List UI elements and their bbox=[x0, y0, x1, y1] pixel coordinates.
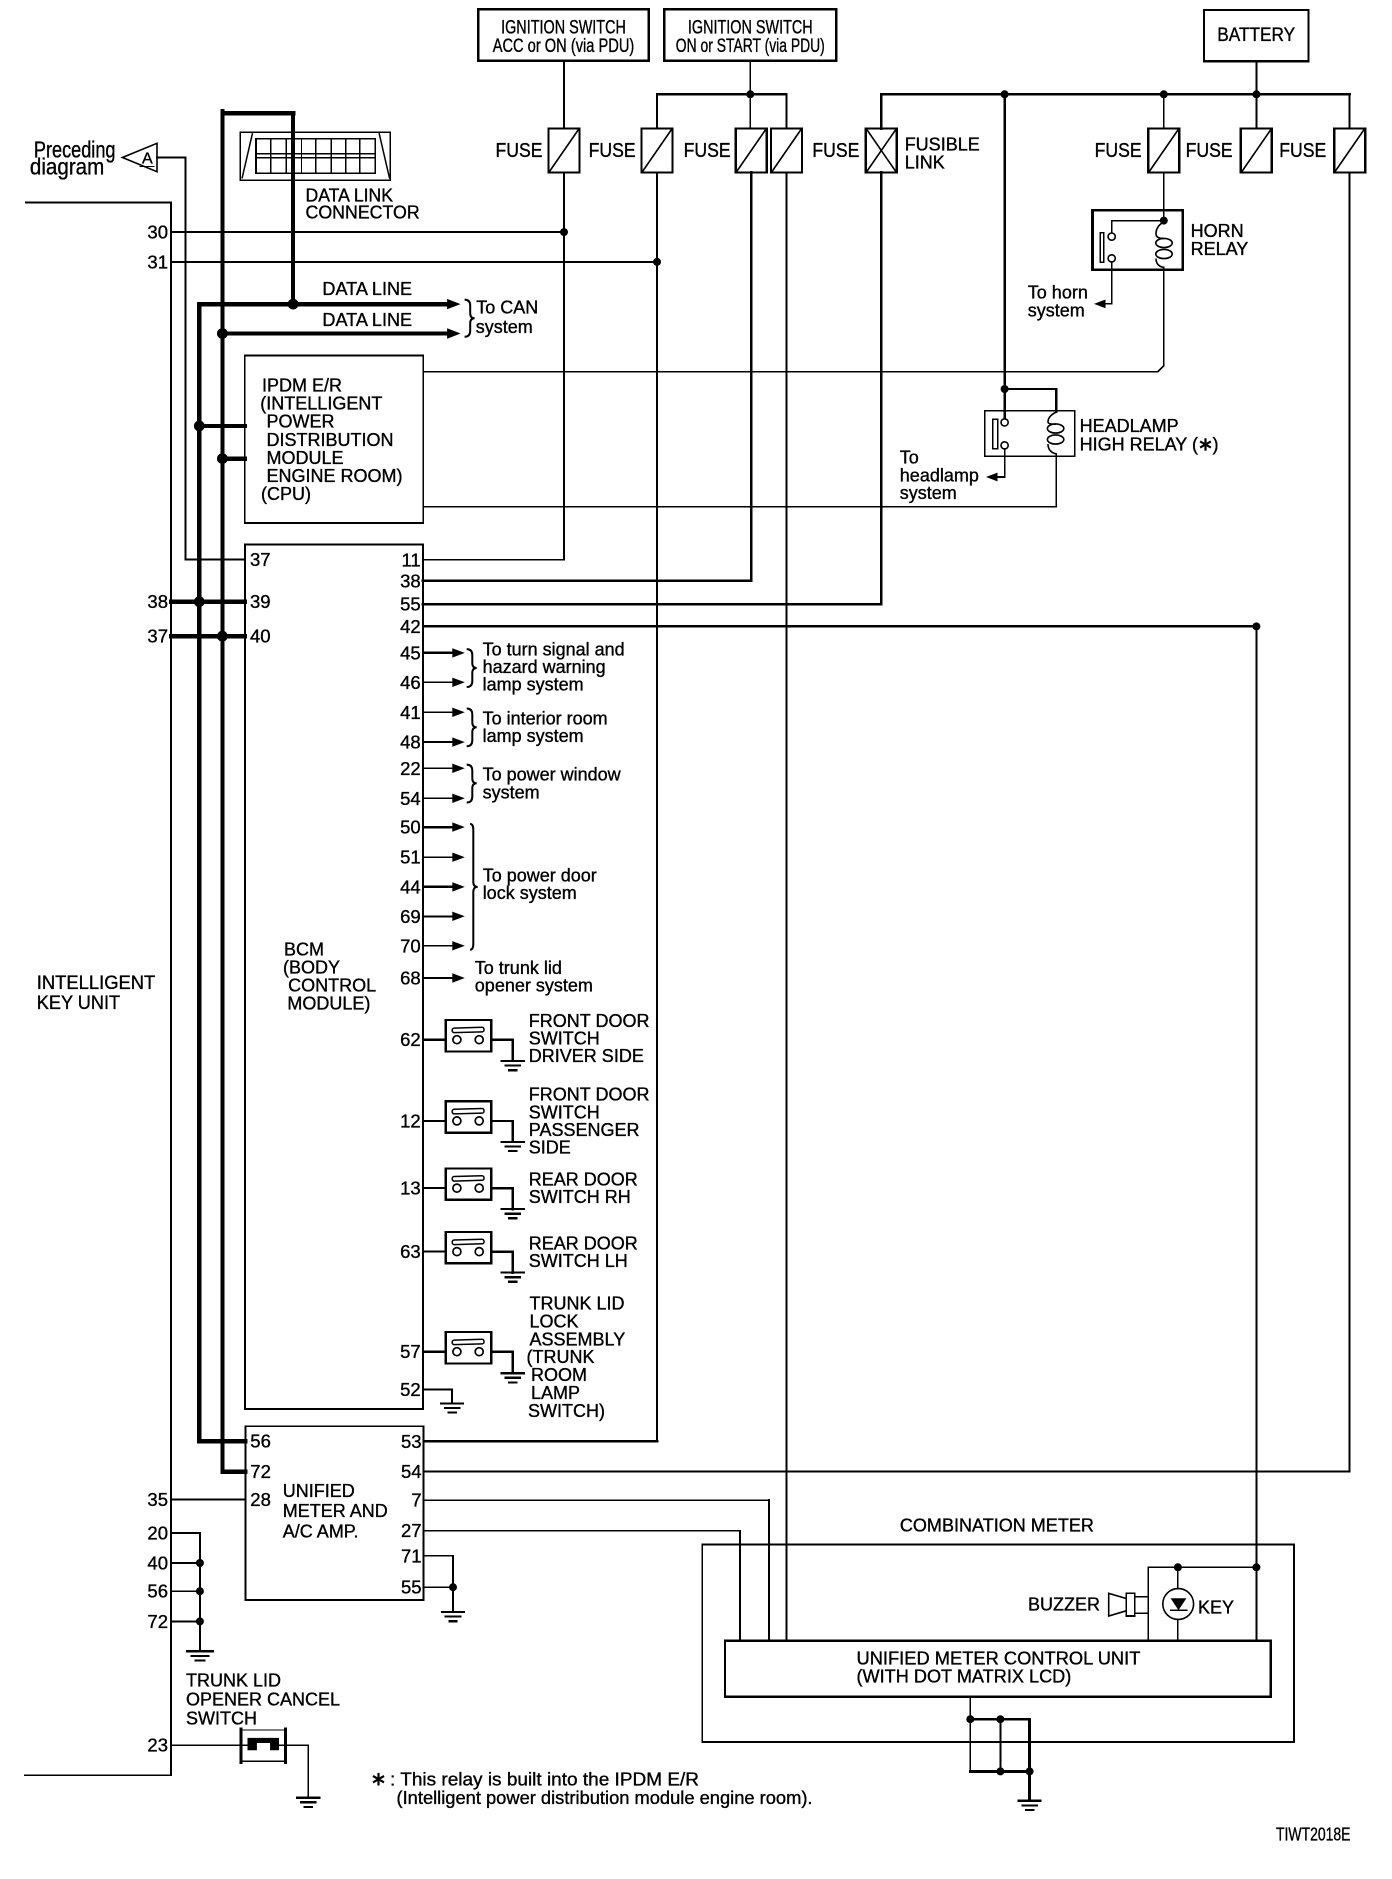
wire BCM 41 arrow bbox=[423, 708, 465, 717]
node junction ON/START bbox=[746, 90, 754, 98]
wire BCM 13 to switch bbox=[423, 1187, 446, 1189]
pin 41 label bbox=[400, 702, 421, 723]
wire BCM 62 to switch bbox=[423, 1038, 446, 1040]
node CAN-B pin40 bbox=[217, 631, 228, 642]
wire switch rear door RH to ground bbox=[491, 1188, 512, 1209]
svg-text:DATA LINE: DATA LINE bbox=[322, 310, 412, 330]
wire 35 to pin 28 bbox=[171, 1499, 246, 1501]
ground rear door RH bbox=[502, 1209, 524, 1218]
node bus-battery bbox=[1252, 90, 1260, 98]
svg-text:BATTERY: BATTERY bbox=[1217, 25, 1295, 46]
svg-text:7: 7 bbox=[411, 1490, 421, 1511]
svg-text:IPDM E/R: IPDM E/R bbox=[262, 376, 342, 396]
svg-text:SIDE: SIDE bbox=[529, 1138, 571, 1158]
pin 30 label bbox=[147, 222, 168, 243]
wire junction bus over fuses F2-F4 bbox=[657, 93, 787, 95]
pin 71 label bbox=[401, 1545, 422, 1566]
svg-text:lamp system: lamp system bbox=[483, 675, 584, 695]
svg-text:39: 39 bbox=[250, 591, 271, 612]
wire 72 stub bbox=[171, 1620, 200, 1622]
wire horn contact to horn system bbox=[1105, 262, 1112, 304]
wire BCM 22 arrow bbox=[423, 764, 465, 773]
wire 56 stub bbox=[171, 1590, 200, 1592]
pin 48 label bbox=[400, 732, 421, 753]
pin 46 label bbox=[400, 672, 421, 693]
fuse FC label bbox=[1279, 140, 1326, 162]
wire bus to fuse FB bbox=[1255, 94, 1257, 128]
svg-text:38: 38 bbox=[147, 591, 168, 612]
door switch front door passenger bbox=[446, 1101, 492, 1132]
svg-text:TIWT2018E: TIWT2018E bbox=[1276, 1825, 1351, 1845]
svg-text:FUSE: FUSE bbox=[496, 140, 543, 162]
svg-text:(INTELLIGENT: (INTELLIGENT bbox=[260, 394, 382, 414]
svg-text:A: A bbox=[142, 151, 153, 168]
battery bus wire bbox=[881, 93, 1349, 96]
wire junction to fuse F2 bbox=[656, 94, 658, 128]
pin 40 label BCM bbox=[250, 625, 271, 646]
unified meter box bbox=[245, 1426, 423, 1600]
wire BCM 51 arrow bbox=[423, 853, 465, 862]
fuse FA bbox=[1148, 129, 1179, 173]
svg-text:44: 44 bbox=[400, 876, 421, 897]
svg-text:INTELLIGENT: INTELLIGENT bbox=[37, 973, 156, 994]
wire 20 to ground rail bbox=[171, 1533, 200, 1651]
wire switch trunk lid lock to ground bbox=[491, 1352, 512, 1374]
IPDM E/R label bbox=[260, 376, 402, 505]
svg-text:lamp system: lamp system bbox=[483, 726, 584, 746]
svg-text:SWITCH LH: SWITCH LH bbox=[529, 1251, 628, 1271]
svg-text:12: 12 bbox=[400, 1110, 421, 1131]
svg-text:KEY UNIT: KEY UNIT bbox=[37, 993, 121, 1014]
fuse FB label bbox=[1186, 140, 1233, 162]
svg-text:BUZZER: BUZZER bbox=[1028, 1595, 1100, 1615]
svg-text:69: 69 bbox=[400, 906, 421, 927]
door switch rear door RH bbox=[446, 1169, 492, 1200]
wire 71 join 55 bbox=[424, 1556, 453, 1587]
pin 7 label bbox=[411, 1490, 421, 1511]
wire 27 to meter control unit bbox=[424, 1531, 740, 1641]
pin 53 label bbox=[401, 1431, 422, 1452]
fuse FC bbox=[1334, 129, 1365, 173]
wire battery to bus bbox=[1255, 61, 1257, 94]
svg-text:DISTRIBUTION: DISTRIBUTION bbox=[267, 430, 394, 450]
ignition switch ACC box bbox=[478, 9, 649, 61]
wire bus to headlamp relay bbox=[1003, 94, 1005, 419]
horn relay label bbox=[1191, 221, 1249, 259]
svg-text:30: 30 bbox=[147, 222, 168, 243]
svg-text:28: 28 bbox=[250, 1489, 271, 1510]
wire BCM 44 arrow bbox=[423, 882, 465, 891]
fuse F1 label bbox=[496, 140, 543, 162]
data link connector bbox=[240, 132, 390, 180]
document number bbox=[1276, 1825, 1351, 1845]
pin 27 label bbox=[401, 1520, 422, 1541]
pin 35 label left bbox=[147, 1489, 168, 1510]
brace turn signal bbox=[467, 649, 477, 687]
wire BCM 68 arrow bbox=[423, 973, 465, 982]
brace power door lock bbox=[470, 824, 478, 950]
wire CAN-A to IPDM stub bbox=[199, 424, 245, 428]
svg-text:(BODY: (BODY bbox=[283, 958, 340, 978]
svg-text:20: 20 bbox=[147, 1522, 168, 1543]
fuse F4 label bbox=[812, 140, 859, 162]
to headlamp system label bbox=[900, 447, 979, 503]
ground cancel switch bbox=[297, 1798, 319, 1807]
wire BCM 63 to switch bbox=[423, 1251, 446, 1253]
svg-text:72: 72 bbox=[147, 1611, 168, 1632]
data line labels bbox=[322, 279, 412, 330]
pin 62 label bbox=[400, 1029, 421, 1050]
switch front door passenger label bbox=[529, 1085, 650, 1158]
svg-text:55: 55 bbox=[401, 1577, 422, 1598]
brace to CAN system bbox=[465, 300, 475, 337]
wire junction to fuse F4 bbox=[786, 94, 788, 128]
pin 57 label bbox=[400, 1341, 421, 1362]
svg-text:FUSE: FUSE bbox=[812, 140, 859, 162]
pin 72 label left bbox=[147, 1611, 168, 1632]
wire bus to fusible link bbox=[880, 94, 883, 128]
ground rear door LH bbox=[502, 1273, 524, 1282]
fuse FA label bbox=[1095, 140, 1142, 162]
ground pin 52 bbox=[441, 1403, 463, 1412]
svg-text:42: 42 bbox=[400, 616, 421, 637]
wire CAN-B top corner bbox=[222, 111, 293, 115]
BCM label bbox=[283, 940, 376, 1014]
switch front door driver label bbox=[529, 1011, 650, 1066]
svg-text:ACC or ON (via PDU): ACC or ON (via PDU) bbox=[493, 36, 635, 57]
door switch rear door LH bbox=[446, 1232, 492, 1263]
pin 38 label bbox=[400, 570, 421, 591]
wire switch front door passenger to ground bbox=[491, 1121, 512, 1142]
fuse F2 label bbox=[589, 140, 636, 162]
switch rear door LH label bbox=[529, 1234, 638, 1272]
pin 38 label left bbox=[147, 591, 168, 612]
svg-text:46: 46 bbox=[400, 672, 421, 693]
svg-text:37: 37 bbox=[147, 626, 168, 647]
IPDM E/R box bbox=[245, 355, 423, 523]
wire 23 to cancel switch bbox=[171, 1744, 247, 1746]
wire switch front door driver to ground bbox=[491, 1040, 512, 1061]
wire fuse FA to horn relay bbox=[1163, 173, 1165, 221]
svg-text:FUSE: FUSE bbox=[1186, 140, 1233, 162]
meter ground mesh bbox=[966, 1697, 1033, 1776]
data line 1 arrow bbox=[447, 299, 461, 309]
node DLC-dataline1 bbox=[288, 299, 299, 310]
svg-text:40: 40 bbox=[250, 625, 271, 646]
to horn system label bbox=[1028, 282, 1088, 320]
node bus-headlamp feed bbox=[1001, 90, 1009, 98]
to CAN system label bbox=[476, 298, 539, 337]
pin 54 label bbox=[400, 788, 421, 809]
pin 37 label left bbox=[147, 626, 168, 647]
wire 7 to meter control unit bbox=[424, 1500, 770, 1641]
svg-text:SWITCH): SWITCH) bbox=[528, 1401, 605, 1421]
connector triangle A bbox=[122, 143, 157, 171]
svg-text:35: 35 bbox=[147, 1489, 168, 1510]
pin 28 label unified bbox=[250, 1489, 271, 1510]
node battery drop comb meter bbox=[1252, 1563, 1260, 1571]
fuse F2 bbox=[642, 129, 673, 173]
node 40-gnd bbox=[196, 1559, 204, 1567]
svg-text:37: 37 bbox=[250, 549, 271, 570]
svg-text:50: 50 bbox=[400, 817, 421, 838]
pin 45 label bbox=[400, 642, 421, 663]
svg-text:57: 57 bbox=[400, 1341, 421, 1362]
combination meter box bbox=[702, 1545, 1294, 1742]
ignition switch ACC label bbox=[493, 18, 635, 57]
svg-text:71: 71 bbox=[401, 1545, 422, 1566]
node bus-fuse FA bbox=[1160, 90, 1168, 98]
data link connector label bbox=[306, 186, 420, 223]
svg-text:system: system bbox=[900, 483, 957, 503]
svg-text:FUSE: FUSE bbox=[1279, 140, 1326, 162]
svg-text:ENGINE ROOM): ENGINE ROOM) bbox=[267, 466, 403, 486]
svg-text:62: 62 bbox=[400, 1029, 421, 1050]
svg-text:system: system bbox=[483, 782, 540, 802]
wire BCM 50 arrow bbox=[423, 822, 465, 831]
ground key unit bbox=[187, 1651, 213, 1660]
horn relay contact wiring bbox=[1100, 221, 1164, 263]
unified meter label bbox=[283, 1481, 388, 1541]
wire BCM 48 arrow bbox=[423, 737, 465, 746]
svg-text:FUSE: FUSE bbox=[1095, 140, 1142, 162]
wire mesh to ground bbox=[1028, 1771, 1031, 1800]
svg-text:68: 68 bbox=[400, 968, 421, 989]
pin 52 label bbox=[400, 1379, 421, 1400]
pin 37 label BCM bbox=[250, 549, 271, 570]
buzzer symbol bbox=[1109, 1593, 1149, 1616]
svg-text:UNIFIED: UNIFIED bbox=[283, 1481, 355, 1501]
svg-text:HIGH RELAY (: HIGH RELAY ( bbox=[1080, 434, 1198, 454]
headlamp relay coil bbox=[1047, 412, 1063, 454]
wire BCM 42 to battery line bbox=[423, 625, 1256, 627]
horn relay coil bbox=[1156, 222, 1172, 268]
key LED label bbox=[1198, 1598, 1234, 1618]
svg-text:system: system bbox=[476, 317, 533, 337]
svg-text:(WITH DOT MATRIX LCD): (WITH DOT MATRIX LCD) bbox=[857, 1667, 1072, 1687]
svg-text:TRUNK LID: TRUNK LID bbox=[186, 1670, 281, 1690]
wire BCM 70 arrow bbox=[423, 941, 465, 950]
to trunk lid opener label bbox=[475, 958, 593, 996]
node CAN-A pin39 bbox=[194, 596, 205, 607]
svg-text:OPENER CANCEL: OPENER CANCEL bbox=[186, 1690, 340, 1710]
data line 2 arrow bbox=[447, 328, 461, 338]
pin 42 label bbox=[400, 616, 421, 637]
wire BCM 52 to ground bbox=[423, 1390, 452, 1403]
wire horn coil to IPDM bbox=[423, 268, 1164, 372]
headlamp relay label bbox=[1080, 416, 1219, 454]
svg-text:RELAY: RELAY bbox=[1191, 239, 1249, 259]
switch rear door RH label bbox=[529, 1170, 638, 1208]
wire triangle-A to pin 37 of BCM bbox=[157, 158, 245, 560]
wire BCM 46 arrow bbox=[423, 678, 465, 687]
footnote text bbox=[390, 1769, 813, 1808]
wire BCM 38 to fuse F3 bbox=[423, 173, 751, 581]
ignition switch ON/START label bbox=[676, 18, 825, 57]
wire CAN-B vertical bbox=[220, 111, 224, 1472]
fusible link FL bbox=[866, 129, 897, 173]
wire BCM 57 to switch bbox=[423, 1350, 446, 1352]
svg-text:lock system: lock system bbox=[483, 883, 577, 903]
node 72-gnd bbox=[196, 1617, 204, 1625]
door switch front door driver bbox=[446, 1020, 492, 1051]
wire fuse FB to key illumination bbox=[1255, 626, 1257, 1640]
trunk lid opener cancel switch bbox=[240, 1729, 286, 1763]
node 31-F2 bbox=[653, 258, 661, 266]
wire CAN-A vertical bbox=[197, 304, 201, 1441]
pin 54 label unified bbox=[401, 1461, 422, 1482]
svg-text:23: 23 bbox=[147, 1735, 168, 1756]
svg-text:ON or START (via PDU): ON or START (via PDU) bbox=[676, 36, 825, 57]
wire 54 to fuse FC bbox=[424, 173, 1350, 1472]
pin 72 label unified bbox=[250, 1461, 271, 1482]
svg-text:54: 54 bbox=[401, 1461, 422, 1482]
pin 12 label bbox=[400, 1110, 421, 1131]
svg-text:31: 31 bbox=[147, 251, 168, 272]
fuse F4 bbox=[771, 129, 802, 173]
wire ACC to fuse F1 bbox=[563, 61, 565, 129]
svg-text:38: 38 bbox=[400, 570, 421, 591]
wire 55 to ground bbox=[424, 1587, 453, 1611]
pin 40 label left bbox=[147, 1553, 168, 1574]
wire left rail top bbox=[25, 202, 171, 1775]
ground unified 55 bbox=[442, 1612, 464, 1621]
svg-text:11: 11 bbox=[401, 549, 420, 570]
fuse FB bbox=[1241, 129, 1272, 173]
pin 56 label unified bbox=[250, 1431, 271, 1452]
fuse F3 label bbox=[684, 140, 731, 162]
svg-text:HORN: HORN bbox=[1191, 221, 1244, 241]
svg-text:DATA LINE: DATA LINE bbox=[322, 279, 412, 299]
footnote star bbox=[373, 1773, 384, 1786]
fuse F3 bbox=[736, 129, 767, 173]
wire junction to fuse F3 bbox=[749, 94, 751, 128]
svg-text:40: 40 bbox=[147, 1553, 168, 1574]
unified meter control unit label bbox=[857, 1649, 1141, 1687]
wire CAN-A to pin 56 bbox=[199, 1439, 245, 1443]
node headlamp branch bbox=[1001, 385, 1009, 393]
svg-text:45: 45 bbox=[400, 642, 421, 663]
pin 20 label bbox=[147, 1522, 168, 1543]
wire cancel switch to ground bbox=[279, 1745, 308, 1797]
node key LED feed bbox=[1174, 1563, 1182, 1571]
fusible link label bbox=[905, 135, 980, 173]
trunk lid opener cancel switch label bbox=[186, 1670, 340, 1728]
to interior room label bbox=[483, 709, 608, 747]
svg-text:MODULE: MODULE bbox=[267, 448, 344, 468]
node 42-battery bbox=[1252, 622, 1260, 630]
svg-text:22: 22 bbox=[400, 758, 421, 779]
node 71-55 bbox=[449, 1583, 457, 1591]
svg-text:52: 52 bbox=[400, 1379, 421, 1400]
wire 53 to fuse F2 bbox=[424, 173, 657, 1442]
wire switch rear door LH to ground bbox=[491, 1252, 512, 1273]
wire buzzer feed bbox=[1147, 1567, 1149, 1641]
svg-text:53: 53 bbox=[401, 1431, 422, 1452]
unified meter control unit box bbox=[725, 1641, 1271, 1697]
pin 50 label bbox=[400, 817, 421, 838]
battery label bbox=[1217, 25, 1295, 46]
pin 13 label bbox=[400, 1178, 421, 1199]
svg-text:system: system bbox=[1028, 300, 1085, 320]
ground combination meter bbox=[1019, 1801, 1041, 1810]
pin 56 label left bbox=[147, 1581, 168, 1602]
svg-text:LINK: LINK bbox=[905, 153, 945, 173]
brace power window bbox=[467, 765, 477, 803]
wire BCM 12 to switch bbox=[423, 1120, 446, 1122]
ground front door driver bbox=[502, 1061, 524, 1070]
intelligent key unit label bbox=[37, 973, 156, 1014]
svg-text:63: 63 bbox=[400, 1241, 421, 1262]
pin 39 label BCM bbox=[250, 591, 271, 612]
svg-text:opener system: opener system bbox=[475, 976, 593, 996]
wire BCM 54 arrow bbox=[423, 794, 465, 803]
svg-text:51: 51 bbox=[400, 847, 421, 868]
data line 2 wire bbox=[222, 331, 448, 335]
wire pin37-left to BCM 40 bbox=[171, 634, 245, 638]
svg-text:: This relay is built into the: : This relay is built into the IPDM E/R bbox=[390, 1769, 699, 1789]
to power window label bbox=[483, 765, 622, 803]
svg-text:(Intelligent power distributio: (Intelligent power distribution module e… bbox=[397, 1788, 813, 1808]
headlamp relay contacts bbox=[993, 419, 1008, 449]
svg-text:48: 48 bbox=[400, 732, 421, 753]
arrow to headlamp system bbox=[986, 473, 998, 482]
wire BCM 55 to fusible link bbox=[423, 173, 881, 605]
node horn relay feed bbox=[1160, 217, 1168, 225]
svg-text:): ) bbox=[1213, 434, 1219, 454]
svg-text:FUSE: FUSE bbox=[684, 140, 731, 162]
pin 63 label bbox=[400, 1241, 421, 1262]
wire headlamp contact to headlamp system bbox=[997, 449, 1005, 477]
svg-text:CONNECTOR: CONNECTOR bbox=[306, 203, 420, 223]
svg-text:13: 13 bbox=[400, 1178, 421, 1199]
wire ON/START down to junction bbox=[749, 61, 751, 94]
svg-text:41: 41 bbox=[400, 702, 421, 723]
wire DLC drop bbox=[291, 113, 295, 304]
ignition switch ON/START box bbox=[664, 9, 836, 61]
pin 51 label bbox=[400, 847, 421, 868]
key LED bbox=[1163, 1567, 1194, 1641]
wire BCM 69 arrow bbox=[423, 912, 465, 921]
svg-text:MODULE): MODULE) bbox=[287, 993, 370, 1013]
pin 22 label bbox=[400, 758, 421, 779]
svg-text:KEY: KEY bbox=[1198, 1598, 1234, 1618]
svg-text:55: 55 bbox=[400, 594, 421, 615]
svg-text:diagram: diagram bbox=[30, 154, 104, 180]
svg-text:56: 56 bbox=[147, 1581, 168, 1602]
pin 69 label bbox=[400, 906, 421, 927]
pin 70 label bbox=[400, 935, 421, 956]
svg-text:COMBINATION METER: COMBINATION METER bbox=[900, 1516, 1094, 1536]
wire headlamp coil to IPDM bbox=[423, 454, 1056, 507]
preceding diagram label bbox=[30, 137, 116, 180]
svg-text:To horn: To horn bbox=[1028, 282, 1088, 302]
wire pin31 bbox=[171, 261, 657, 263]
pin 23 label bbox=[147, 1735, 168, 1756]
headlamp relay box bbox=[985, 411, 1075, 456]
horn relay U-horn box bbox=[1093, 210, 1183, 269]
wire bus to fuse FC bbox=[1349, 94, 1351, 128]
svg-text:METER AND: METER AND bbox=[283, 1501, 388, 1521]
node CAN-B to IPDM bbox=[217, 453, 228, 464]
wire 40 stub bbox=[171, 1562, 200, 1564]
battery box bbox=[1204, 10, 1309, 61]
wire pin30 bbox=[171, 231, 564, 233]
wire CAN-B to pin 72 bbox=[222, 1470, 245, 1474]
wire pin38-left to BCM 39 bbox=[171, 600, 245, 604]
svg-text:56: 56 bbox=[250, 1431, 271, 1452]
wire BCM 45 arrow bbox=[423, 648, 465, 657]
